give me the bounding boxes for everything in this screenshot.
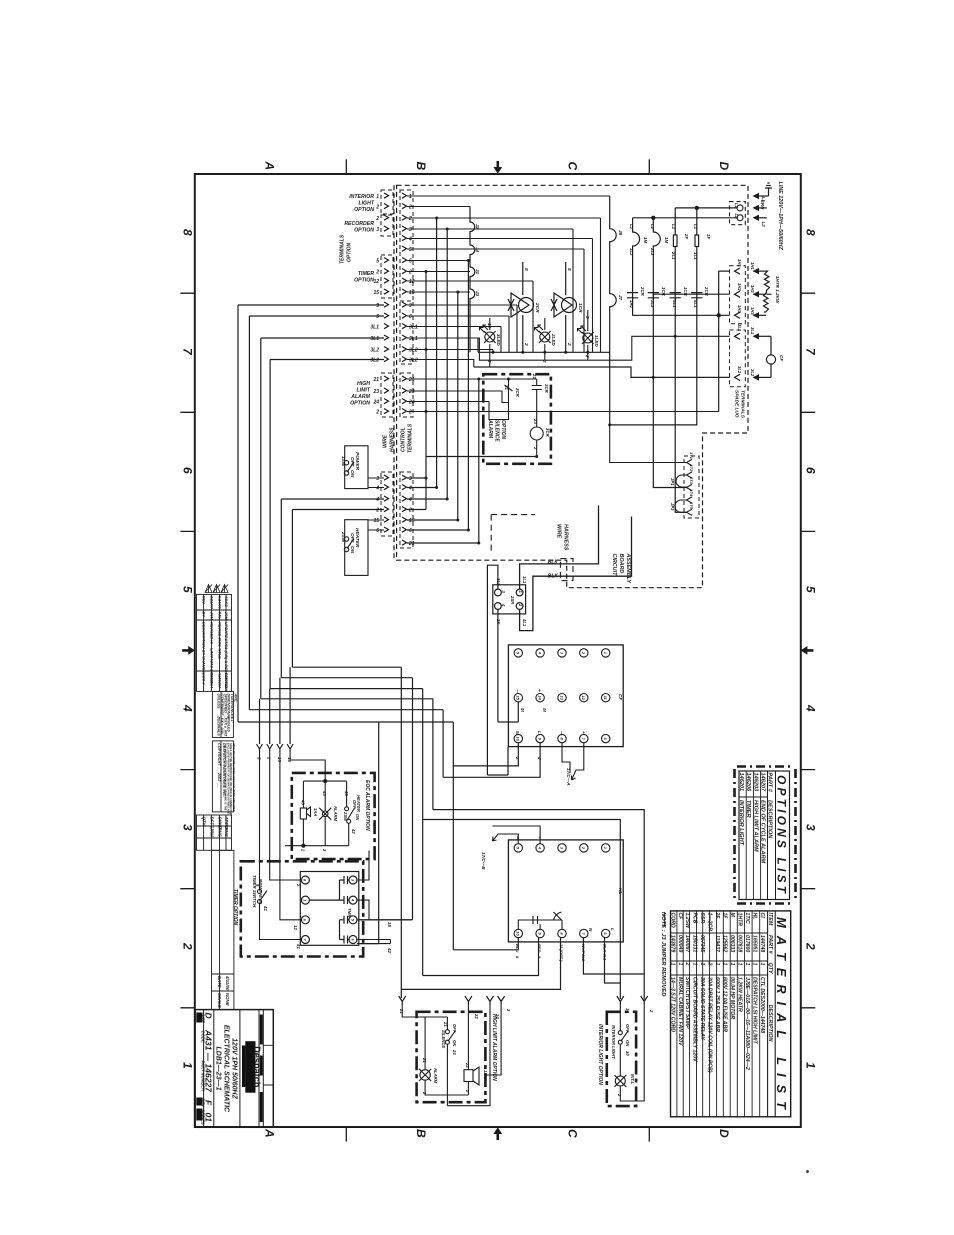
svg-text:3L2: 3L2	[737, 366, 742, 374]
svg-text:2SR: 2SR	[510, 595, 515, 604]
svg-text:4: 4	[804, 704, 818, 712]
svg-text:OPTION: OPTION	[500, 420, 506, 440]
svg-text:5: 5	[181, 586, 195, 593]
relay coil 1CR	[551, 262, 577, 352]
svg-text:TOLERANCES: TOLERANCES	[230, 694, 234, 720]
options list table	[734, 767, 796, 904]
centering arrow top	[182, 161, 813, 1140]
spade lug terminals label	[734, 390, 746, 419]
svg-text:3L1: 3L1	[409, 336, 418, 342]
contactor pole L2 1M 2L2	[653, 218, 660, 300]
svg-text:1: 1	[804, 1062, 818, 1069]
svg-text:TIMER OPTION: TIMER OPTION	[232, 889, 238, 926]
svg-text:23: 23	[372, 389, 379, 395]
svg-text:12: 12	[487, 323, 492, 329]
svg-text:2: 2	[515, 756, 520, 760]
svg-text:JJ9E—018—00—16—11A080—024—2: JJ9E—018—00—16—11A080—024—2	[744, 977, 750, 1070]
svg-text:OFF: OFF	[352, 800, 357, 809]
svg-text:SPECIFIED: SPECIFIED	[223, 694, 227, 714]
svg-text:4: 4	[408, 237, 412, 243]
svg-text:22: 22	[474, 1013, 479, 1019]
svg-text:M: M	[515, 731, 520, 735]
svg-text:1LED: 1LED	[594, 335, 599, 347]
svg-text:DESCRIPTION OF CHANGE: DESCRIPTION OF CHANGE	[202, 622, 207, 673]
svg-text:DATE: DATE	[217, 976, 222, 989]
harness pins row mid-left	[257, 667, 294, 752]
high limit alarm option box	[417, 1012, 486, 1102]
svg-text:15: 15	[409, 290, 415, 296]
svg-text:RECORDER: RECORDER	[344, 221, 374, 227]
svg-text:1H2: 1H2	[737, 283, 742, 291]
svg-text:3L2: 3L2	[370, 358, 379, 364]
svg-text:1AA: 1AA	[313, 808, 318, 816]
svg-text:15: 15	[516, 695, 521, 700]
svg-text:J1: J1	[475, 269, 480, 275]
svg-text:WHT 3L2: WHT 3L2	[581, 944, 586, 962]
svg-text:4: 4	[181, 704, 195, 712]
svg-text:42: 42	[387, 947, 392, 953]
svg-text:4L1: 4L1	[522, 618, 527, 627]
svg-text:D: D	[204, 1013, 214, 1019]
svg-text:RNS: RNS	[224, 828, 229, 837]
EOC alarm option box	[292, 773, 375, 859]
jumper hop arcs J2 J4 J1 J3	[470, 207, 475, 353]
svg-text:TIMER SWITCH: TIMER SWITCH	[252, 875, 257, 908]
svg-text:146203: 146203	[752, 773, 758, 793]
svg-text:017800: 017800	[744, 935, 750, 952]
CF circuit board terminal block	[508, 645, 623, 747]
circuit board assembly dashed boundary	[394, 185, 748, 587]
svg-text:PCB: PCB	[692, 913, 698, 924]
svg-text:12: 12	[581, 695, 586, 700]
long right wires to interior light	[423, 743, 645, 983]
LED 2LED	[535, 318, 551, 360]
PCB bus lines	[474, 338, 730, 377]
svg-text:HARNESS: HARNESS	[390, 427, 396, 452]
vertical with J8 J7 hops	[610, 196, 617, 425]
svg-text:1HTR 1.2KW: 1HTR 1.2KW	[775, 276, 780, 304]
svg-text:OPTION: OPTION	[354, 228, 374, 234]
svg-text:2: 2	[181, 942, 195, 950]
svg-text:9: 9	[409, 303, 412, 309]
svg-text:OFF: OFF	[452, 1024, 457, 1033]
svg-text:24: 24	[452, 1049, 457, 1055]
svg-text:CIRCUIT BOARD ASSEMBLY 120V: CIRCUIT BOARD ASSEMBLY 120V	[692, 977, 698, 1062]
svg-text:ON: ON	[355, 814, 360, 821]
svg-text:Despatch: Despatch	[252, 1046, 262, 1088]
svg-text:1: 1	[759, 963, 765, 966]
svg-text:2: 2	[542, 359, 547, 363]
svg-text:L: L	[537, 731, 542, 734]
svg-text:JRM: JRM	[209, 612, 214, 621]
despatch logo	[242, 1041, 262, 1093]
3CR coil	[530, 396, 543, 457]
cabinet fan CF	[766, 336, 775, 377]
svg-text:43: 43	[301, 799, 306, 805]
1AH horn	[464, 1067, 479, 1085]
svg-text:WIRE: WIRE	[556, 524, 562, 538]
svg-text:15: 15	[373, 290, 379, 296]
svg-text:3L1: 3L1	[370, 325, 379, 331]
BLK labels	[548, 560, 559, 580]
3CR switch contact	[505, 379, 513, 403]
power switch 1SW	[344, 446, 384, 489]
svg-text:CORD: CORD	[669, 913, 675, 929]
wire harness label	[556, 524, 569, 551]
svg-text:1H2: 1H2	[629, 300, 634, 309]
svg-text:5: 5	[804, 586, 818, 593]
svg-text:600V 1.25A FUSE ABR: 600V 1.25A FUSE ABR	[714, 977, 720, 1032]
svg-text:INDUSTRIES: INDUSTRIES	[244, 1058, 248, 1076]
JP1 JP3 jumper arcs	[675, 475, 687, 512]
svg-text:21: 21	[443, 1021, 448, 1027]
svg-text:21: 21	[408, 377, 415, 383]
svg-text:144748: 144748	[759, 935, 765, 952]
svg-text:TIMER: TIMER	[745, 800, 751, 817]
zone letters bottom	[263, 1128, 732, 1138]
high limit alarm wiring	[402, 1005, 501, 1106]
svg-text:6/14/06: 6/14/06	[218, 596, 223, 610]
svg-text:DESPATCH LSI HIGH LIMIT: DESPATCH LSI HIGH LIMIT	[752, 977, 758, 1044]
svg-text:6: 6	[376, 528, 379, 534]
svg-text:J4: J4	[475, 247, 480, 253]
svg-text:1,2SW: 1,2SW	[684, 913, 690, 930]
svg-text:01: 01	[204, 1113, 214, 1123]
contact drops to spade terminals	[610, 298, 697, 513]
CR contact 2CR 1H2	[627, 293, 638, 298]
svg-text:21 [OPT.]: 21 [OPT.]	[559, 943, 564, 962]
svg-text:10: 10	[516, 736, 521, 741]
svg-text:1M: 1M	[643, 237, 648, 243]
BLK wires to board	[520, 506, 632, 631]
svg-text:0300164: 0300164	[209, 673, 214, 689]
svg-text:OPTIONS LIST: OPTIONS LIST	[775, 775, 789, 895]
timer option box	[241, 861, 363, 956]
svg-text:+: +	[537, 689, 542, 692]
svg-text:14: 14	[537, 695, 542, 700]
svg-text:+: +	[537, 836, 542, 839]
svg-text:INTERIOR LIGHT: INTERIOR LIGHT	[738, 800, 744, 846]
svg-text:ANGLES: ANGLES	[227, 716, 231, 733]
svg-text:JP1: JP1	[670, 478, 675, 486]
copyright proprietary block	[212, 741, 233, 812]
svg-text:A: A	[263, 161, 277, 171]
svg-text:LDB1—23—1: LDB1—23—1	[215, 1047, 222, 1091]
svg-text:BY: BY	[202, 612, 207, 618]
svg-text:1AH: 1AH	[483, 1070, 488, 1079]
svg-text:1H2: 1H2	[750, 285, 755, 293]
svg-text:12: 12	[409, 279, 415, 285]
svg-text:2SW: 2SW	[340, 531, 346, 543]
svg-text:3: 3	[376, 476, 379, 482]
svg-text:PART #: PART #	[767, 935, 773, 954]
svg-text:—: —	[515, 688, 520, 694]
svg-text:057345: 057345	[699, 935, 705, 952]
svg-text:OFF: OFF	[625, 1024, 630, 1033]
svg-text:143879: 143879	[669, 935, 675, 952]
svg-text:ASSEMBLY: ASSEMBLY	[625, 553, 631, 584]
svg-text:CIRCUIT: CIRCUIT	[611, 554, 617, 577]
svg-text:L2: L2	[650, 224, 655, 230]
svg-text:CONTROL: CONTROL	[401, 427, 407, 452]
svg-text:4/9/02: 4/9/02	[224, 595, 229, 608]
svg-text:ELECTRICAL SCHEMATIC: ELECTRICAL SCHEMATIC	[223, 1025, 230, 1113]
svg-text:1: 1	[699, 963, 705, 966]
svg-text:3: 3	[376, 227, 379, 233]
svg-text:J7: J7	[618, 295, 623, 301]
EOC heater off/on switch 2SW	[345, 807, 355, 824]
high limit option wires into box	[407, 379, 719, 420]
interior light pins	[617, 996, 648, 1005]
line terminal block	[730, 202, 746, 225]
ground GRN	[753, 183, 773, 199]
svg-text:24: 24	[495, 1013, 500, 1019]
svg-text:00.04 HP MOTOR: 00.04 HP MOTOR	[729, 977, 735, 1019]
wire stair mid	[238, 667, 453, 998]
svg-text:EOC ALARM OPTION: EOC ALARM OPTION	[364, 780, 370, 831]
approval block	[197, 815, 234, 1010]
svg-text:2CR: 2CR	[640, 286, 645, 297]
svg-text:A: A	[263, 1128, 277, 1138]
svg-text:QTY: QTY	[202, 817, 207, 827]
svg-text:2: 2	[408, 216, 412, 222]
wires 2SR	[487, 565, 518, 775]
svg-text:17/C—B: 17/C—B	[481, 852, 486, 870]
material list table	[671, 911, 791, 1117]
svg-text:2: 2	[375, 216, 379, 222]
svg-text:BLK 3L1: BLK 3L1	[603, 944, 608, 961]
interior light option box	[607, 1012, 636, 1106]
svg-text:23: 23	[533, 418, 538, 424]
svg-text:1H1: 1H1	[737, 259, 742, 267]
svg-text:1: 1	[181, 1062, 195, 1069]
svg-text:2: 2	[375, 508, 379, 514]
svg-text:4/11/00: 4/11/00	[225, 975, 230, 991]
drawing border	[195, 174, 801, 1127]
bus junction dots	[492, 351, 590, 354]
option labels	[344, 194, 375, 407]
svg-text:1F: 1F	[706, 234, 711, 239]
svg-text:006333: 006333	[729, 935, 735, 952]
alarm lamp	[419, 1069, 431, 1081]
svg-text:9: 9	[376, 303, 379, 309]
svg-text:8: 8	[804, 229, 818, 236]
right zone junction dots	[608, 335, 677, 427]
revision flags	[205, 585, 228, 593]
svg-text:2SW: 2SW	[343, 811, 348, 822]
svg-text:0150021: 0150021	[224, 673, 229, 688]
svg-text:L2: L2	[761, 222, 766, 228]
svg-text:ALARM: ALARM	[333, 805, 338, 822]
svg-text:1: 1	[744, 963, 750, 966]
svg-text:3L2: 3L2	[409, 358, 418, 364]
contactor pole L2 1M 1L2	[633, 218, 640, 300]
svg-text:JRM: JRM	[209, 828, 214, 838]
zone letters top	[263, 161, 732, 171]
svg-text:1: 1	[722, 963, 728, 966]
svg-text:2: 2	[375, 205, 379, 211]
svg-text:ON: ON	[625, 1040, 630, 1047]
svg-text:CF: CF	[677, 913, 683, 921]
svg-text:4: 4	[408, 486, 412, 492]
svg-text:43: 43	[322, 790, 327, 796]
option terminal dashed group boxes left	[381, 190, 393, 536]
centering arrow left	[182, 646, 195, 655]
svg-text:CF: CF	[618, 694, 623, 700]
svg-text:1HTR: 1HTR	[737, 913, 743, 927]
heater switch 2SW	[344, 520, 384, 576]
svg-text:150131: 150131	[692, 935, 698, 952]
svg-text:2: 2	[533, 446, 538, 450]
svg-text:2: 2	[296, 883, 301, 887]
svg-text:8: 8	[523, 268, 529, 271]
svg-text:41: 41	[263, 905, 268, 911]
svg-text:1T5: 1T5	[689, 502, 694, 510]
svg-text:007818: 007818	[737, 935, 743, 952]
svg-text:1T/C: 1T/C	[744, 913, 750, 924]
heater 1HTR zigzag	[764, 271, 772, 312]
title block	[195, 1010, 273, 1128]
svg-text:2: 2	[585, 354, 590, 358]
svg-text:SCALE: SCALE	[217, 993, 222, 1009]
wire harness dashed boundary mid	[491, 515, 573, 581]
svg-text:ON: ON	[452, 1040, 457, 1047]
svg-text:2: 2	[684, 962, 690, 966]
svg-text:30A DPST RELAY 120V COIL (ON P: 30A DPST RELAY 120V COIL (ON PCB)	[707, 977, 713, 1073]
line label	[777, 182, 783, 251]
revision history table	[197, 594, 232, 691]
svg-text:2CR: 2CR	[534, 302, 540, 313]
svg-text:CF: CF	[779, 355, 784, 361]
svg-text:1H3: 1H3	[750, 307, 755, 315]
svg-text:165051: 165051	[752, 935, 758, 952]
svg-text:C: C	[566, 162, 580, 171]
svg-text:± 1°: ± 1°	[230, 717, 234, 724]
svg-text:15: 15	[387, 922, 392, 927]
svg-text:3: 3	[409, 227, 412, 233]
svg-text:+: +	[581, 731, 586, 734]
svg-text:2: 2	[408, 410, 412, 416]
svg-text:120V 1PH 50/60HZ: 120V 1PH 50/60HZ	[231, 1038, 238, 1099]
heater bus wires	[633, 271, 730, 411]
svg-text:24: 24	[408, 400, 415, 406]
svg-text:LINE 120V—1PH—50/60HZ: LINE 120V—1PH—50/60HZ	[777, 182, 783, 251]
svg-text:L: L	[610, 928, 615, 931]
svg-text:43: 43	[344, 790, 349, 796]
svg-text:3CR: 3CR	[545, 428, 550, 438]
svg-text:1: 1	[752, 963, 758, 966]
wires bottom hookup	[359, 722, 644, 1000]
svg-text:2: 2	[375, 410, 379, 416]
svg-text:UNLESS: UNLESS	[217, 694, 221, 709]
svg-text:REVISE DWG TITLE: REVISE DWG TITLE	[218, 622, 223, 659]
svg-text:2: 2	[523, 342, 529, 346]
svg-text:ALARM: ALARM	[433, 1067, 438, 1084]
HL high limit board	[508, 840, 623, 942]
svg-text:1H3: 1H3	[737, 305, 742, 313]
svg-text:2F: 2F	[684, 233, 689, 239]
svg-text:WITH ANY WORK OTHER THAN THE W: WITH ANY WORK OTHER THAN THE WORK SPECIF…	[232, 743, 236, 812]
svg-text:OPTION: OPTION	[347, 242, 353, 262]
HL bottom labels	[515, 943, 608, 962]
wire harness / control terminals labels	[340, 234, 414, 453]
svg-text:A431 — 146227: A431 — 146227	[204, 1029, 214, 1093]
1T terminal pins	[684, 456, 699, 518]
svg-text:3CR: 3CR	[515, 388, 520, 398]
svg-text:B: B	[414, 162, 428, 171]
svg-text:RNS: RNS	[218, 828, 223, 837]
svg-text:INTERIOR LIGHT OPTION: INTERIOR LIGHT OPTION	[597, 1024, 603, 1085]
riser junction dots	[425, 217, 481, 545]
svg-text:146201: 146201	[738, 773, 744, 792]
17/C-A arrow	[562, 743, 584, 780]
svg-text:3: 3	[181, 824, 195, 831]
svg-text:NONE: NONE	[225, 993, 230, 1007]
TMR right side wires	[357, 851, 413, 944]
svg-text:3L1: 3L1	[672, 300, 677, 308]
svg-text:12: 12	[293, 925, 298, 930]
svg-text:5: 5	[376, 259, 379, 265]
svg-text:2: 2	[566, 342, 572, 346]
svg-text:22: 22	[465, 1062, 470, 1068]
svg-text:6: 6	[376, 314, 379, 320]
svg-text:REV: REV	[202, 596, 207, 604]
svg-text:3L2: 3L2	[409, 348, 418, 354]
svg-text:1F: 1F	[722, 913, 728, 920]
svg-text:42: 42	[351, 828, 356, 834]
svg-text:QTY: QTY	[767, 963, 773, 974]
heater arrows	[753, 268, 767, 319]
3CR capacitor contact	[532, 379, 542, 396]
control riser verticals	[407, 218, 479, 543]
svg-text:INTERIOR: INTERIOR	[349, 194, 374, 200]
svg-text:1—2CR: 1—2CR	[707, 913, 713, 932]
spade lug pins fan	[730, 330, 746, 387]
svg-text:F: F	[204, 1100, 214, 1106]
svg-text:30: 30	[625, 1051, 630, 1056]
svg-text:JRM: JRM	[224, 612, 229, 621]
svg-text:CI: CI	[759, 913, 765, 919]
zone numbers left	[181, 229, 195, 1069]
CR contact 1CR 3L2	[648, 293, 659, 298]
svg-text:2: 2	[707, 962, 713, 966]
svg-text:2: 2	[375, 270, 379, 276]
svg-text:B: B	[414, 1129, 428, 1138]
svg-text:TERMINALS: TERMINALS	[740, 390, 746, 419]
svg-text:15: 15	[373, 518, 379, 524]
left wire bundle upper	[238, 305, 384, 722]
svg-text:HIGH LIMIT ALARM: HIGH LIMIT ALARM	[752, 800, 758, 852]
svg-text:JP3: JP3	[670, 503, 675, 511]
centering arrow right	[801, 646, 814, 655]
option terminal dashed group boxes right	[400, 190, 413, 548]
svg-text:6: 6	[804, 467, 818, 474]
svg-text:13: 13	[559, 695, 564, 700]
tolerance block	[212, 692, 233, 738]
svg-text:SSR: SSR	[699, 913, 705, 924]
svg-text:12: 12	[373, 279, 379, 285]
svg-text:3/21/07: 3/21/07	[209, 596, 214, 610]
svg-text:1T2: 1T2	[689, 465, 694, 473]
svg-text:3L2: 3L2	[650, 300, 655, 308]
svg-text:41: 41	[296, 943, 301, 949]
svg-text:2LED: 2LED	[551, 333, 556, 346]
2SR solid state relay box	[493, 585, 526, 614]
svg-text:3L1: 3L1	[737, 324, 742, 332]
svg-text:3LED: 3LED	[496, 334, 501, 346]
svg-text:HIGH: HIGH	[357, 381, 370, 387]
LED 1LED	[578, 310, 594, 360]
